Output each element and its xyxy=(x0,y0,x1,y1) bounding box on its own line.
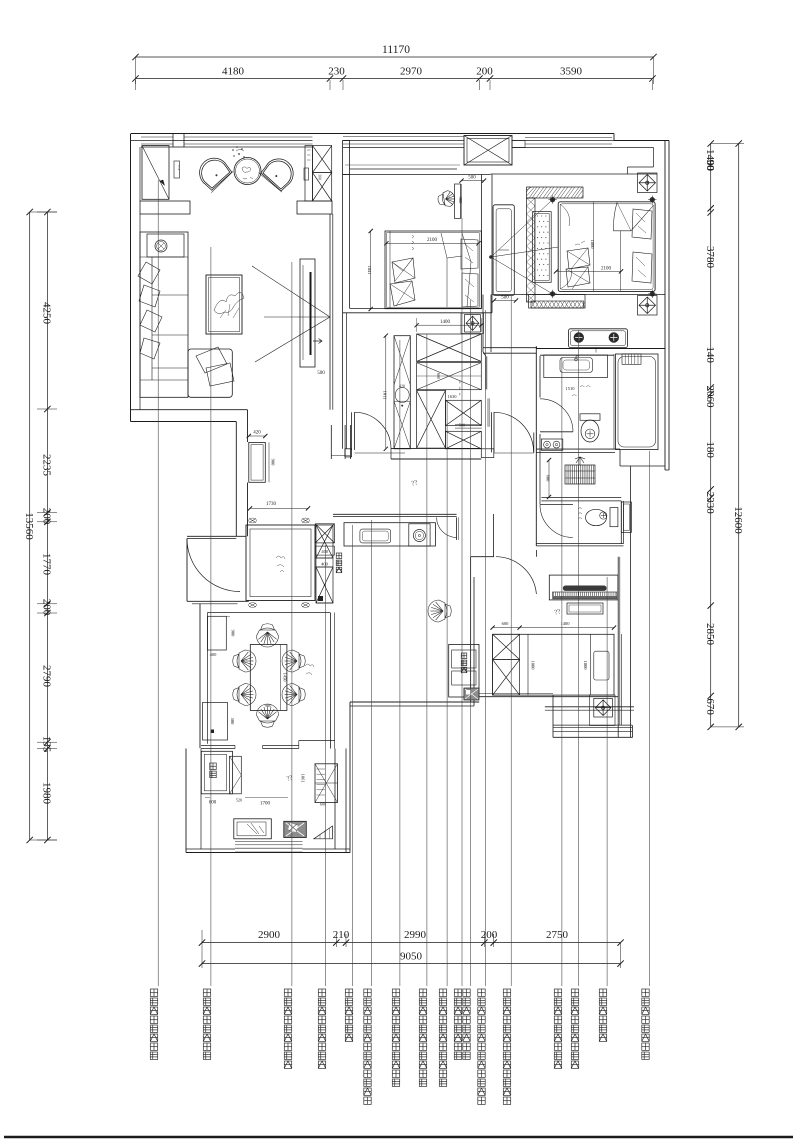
svg-text:600: 600 xyxy=(546,475,551,483)
svg-text:1770: 1770 xyxy=(41,553,53,576)
wardrobe hatch top strip xyxy=(527,187,584,198)
corridor west door corner block xyxy=(345,448,352,450)
svg-text:210: 210 xyxy=(333,929,350,941)
door swing arc (corridor west door) xyxy=(355,412,392,449)
svg-text:2900: 2900 xyxy=(258,929,281,941)
master quilt fold xyxy=(613,203,653,231)
master bath south wall xyxy=(536,448,620,450)
dining west cabinet upper xyxy=(208,616,227,650)
wardrobe hatch west strip xyxy=(527,198,536,302)
dining chair south xyxy=(257,704,279,727)
balcony door arc at kitchen xyxy=(437,517,457,537)
top segment dimension line xyxy=(136,78,653,80)
kitchen east wall xyxy=(334,749,336,850)
svg-text:400: 400 xyxy=(321,549,329,554)
master bedroom interior north wall line xyxy=(491,173,658,175)
entry door swing arc xyxy=(187,539,240,592)
dining scribble xyxy=(305,664,314,675)
svg-text:3590: 3590 xyxy=(560,66,583,78)
kitchen north wall xyxy=(333,513,457,515)
AC box bottom xyxy=(638,296,658,316)
master bed xyxy=(558,202,655,292)
svg-text:300: 300 xyxy=(318,174,322,180)
tatami X cabinet cells xyxy=(493,634,520,659)
svg-text:670: 670 xyxy=(704,698,716,715)
master pinwheel cushions xyxy=(567,248,590,269)
svg-text:230: 230 xyxy=(328,66,345,78)
bottom segment dimension line xyxy=(202,942,621,944)
laundry room south wall xyxy=(541,497,621,499)
piano room east inner line xyxy=(620,634,622,725)
wardrobe box B xyxy=(417,363,482,390)
left segment dimension line xyxy=(46,212,48,840)
svg-text:1400: 1400 xyxy=(440,320,451,325)
svg-text:3780: 3780 xyxy=(704,246,716,269)
svg-text:400: 400 xyxy=(321,562,329,567)
outer wall: west side of living room xyxy=(130,134,132,422)
svg-text:1861: 1861 xyxy=(300,774,305,783)
svg-text:2330: 2330 xyxy=(704,492,716,515)
svg-text:600: 600 xyxy=(320,802,326,807)
entry south wall band xyxy=(187,600,249,602)
kitchen south outer wall xyxy=(186,852,350,854)
picture frame with plant xyxy=(206,275,242,334)
window band B (living room north window) xyxy=(184,136,313,138)
svg-text:2100: 2100 xyxy=(427,238,438,243)
window band A (left bay window) xyxy=(141,136,173,138)
corridor dim line xyxy=(385,336,387,449)
svg-text:1450: 1450 xyxy=(282,673,287,683)
svg-text:900: 900 xyxy=(458,197,463,205)
west wall band of hall (vertical) xyxy=(235,422,237,537)
svg-text:1811: 1811 xyxy=(383,391,388,400)
wc south wall xyxy=(536,543,623,545)
sofa chaise xyxy=(188,349,232,397)
corridor dim 1400 xyxy=(417,324,482,326)
wall pier between windows xyxy=(173,134,184,148)
hatched cabinet right xyxy=(315,764,338,803)
dining east boundary xyxy=(330,613,332,749)
svg-text:2060: 2060 xyxy=(704,386,716,409)
door swing arc (tatami room door) xyxy=(496,557,537,594)
entry door lintel wall xyxy=(187,535,246,537)
bed2 dim 2100 xyxy=(386,242,478,244)
TV set xyxy=(310,272,312,355)
five-drawer chest xyxy=(493,205,514,296)
tatami door wall + leaf xyxy=(471,556,494,558)
label leader lines xyxy=(158,180,649,986)
tatami mat lines xyxy=(527,634,529,695)
window band C (bedroom2 north window) xyxy=(343,136,464,138)
window band D (master bedroom north window) xyxy=(525,137,612,139)
wardrobe hatch bottom strip xyxy=(529,295,585,309)
AC box top xyxy=(638,173,658,193)
svg-text:135: 135 xyxy=(41,736,53,753)
dotted mattress pad xyxy=(533,212,552,283)
wardrobe box D xyxy=(446,400,482,425)
master south wall line xyxy=(492,294,665,296)
left overall dimension 13560 xyxy=(29,212,31,840)
hinge marks xyxy=(459,381,460,395)
svg-text:4250: 4250 xyxy=(41,302,53,325)
frame around tatami AC box xyxy=(590,695,616,726)
svg-text:1800: 1800 xyxy=(590,240,595,250)
svg-text:2990: 2990 xyxy=(404,929,427,941)
sofa pillows xyxy=(138,262,160,284)
svg-text:12600: 12600 xyxy=(732,506,744,534)
dining table xyxy=(250,645,287,711)
neighbour boundary south of corridor xyxy=(350,701,479,703)
right segment dimension line xyxy=(710,144,712,727)
TV arrow xyxy=(313,339,322,344)
counter X cabinet xyxy=(315,524,334,543)
master bath north wall xyxy=(536,348,665,350)
entry west wall xyxy=(186,539,188,602)
TV viewing lines xyxy=(252,266,330,317)
chest sight lines xyxy=(491,200,553,257)
svg-text:200: 200 xyxy=(41,599,53,616)
tatami room south wall xyxy=(471,696,618,698)
hall east wall upper (bed2 side) xyxy=(482,295,484,353)
bed2 pinwheel cushions xyxy=(392,258,415,283)
bath door swing xyxy=(540,399,573,432)
fan chair west xyxy=(193,152,234,193)
counter sink xyxy=(360,529,391,543)
wall stub below bay cabinet xyxy=(140,201,190,214)
svg-text:200: 200 xyxy=(481,929,498,941)
bottom overall dimension 9050 xyxy=(202,963,621,965)
corridor side cabinet xyxy=(449,644,479,697)
bath SE step xyxy=(619,449,621,466)
AC/shaft box at corridor xyxy=(465,315,481,333)
outer wall: east side xyxy=(664,141,666,471)
foyer corner marks xyxy=(249,519,256,523)
svg-text:2850: 2850 xyxy=(704,623,716,646)
svg-text:90: 90 xyxy=(704,160,716,172)
dining chair east1 xyxy=(282,650,305,672)
foyer dim 1730 xyxy=(250,507,308,509)
washing machine xyxy=(541,439,562,450)
svg-text:11170: 11170 xyxy=(382,44,410,56)
dining chair east2 xyxy=(282,684,305,706)
svg-text:500: 500 xyxy=(468,176,476,181)
bed2 sleeping pillows xyxy=(461,239,478,269)
kitchen prep counter xyxy=(234,819,271,839)
tatami room west wall xyxy=(470,557,472,702)
wall segment right of flue box xyxy=(512,147,525,149)
piano room east wall xyxy=(617,557,619,738)
foyer square carpet xyxy=(246,525,315,601)
wc east wall + shaft xyxy=(620,501,622,544)
svg-text:1510: 1510 xyxy=(566,386,576,391)
bed2 quilt fold xyxy=(441,233,471,307)
laundry drying rack xyxy=(565,465,595,484)
right overall dimension 12600 xyxy=(738,144,740,727)
svg-text:1700: 1700 xyxy=(260,802,271,807)
svg-text:2235: 2235 xyxy=(41,454,53,477)
dining chair west1 xyxy=(233,650,256,672)
svg-text:500: 500 xyxy=(230,718,235,726)
decor dots above table xyxy=(232,146,245,158)
svg-text:500: 500 xyxy=(501,296,509,301)
bedroom2 west wall + corridor west wall xyxy=(342,175,344,449)
dining chair north xyxy=(257,624,279,647)
master dim 2100 xyxy=(556,270,621,272)
dim 500 at desk xyxy=(462,180,485,182)
living room east wall (TV wall) xyxy=(329,214,331,410)
stove (dark) xyxy=(284,821,307,837)
dim 420 xyxy=(249,435,265,437)
fan chair east xyxy=(258,152,299,193)
svg-text:1800: 1800 xyxy=(531,661,536,671)
outer wall: top, west span xyxy=(131,133,614,135)
kitchen south window xyxy=(235,840,303,842)
svg-text:500: 500 xyxy=(317,371,325,376)
bedroom2 desk xyxy=(455,184,461,219)
svg-text:600: 600 xyxy=(436,373,441,379)
dining west cabinet lower xyxy=(203,703,228,741)
piano keyboard xyxy=(553,592,617,599)
svg-text:520: 520 xyxy=(236,798,242,803)
toilet (master bath) xyxy=(580,414,600,421)
svg-text:200: 200 xyxy=(476,66,493,78)
shoe cabinet strip xyxy=(394,336,410,449)
tatami platform xyxy=(493,634,614,695)
wall stub east side of bay xyxy=(297,201,332,214)
SE corner window band xyxy=(553,724,632,726)
svg-text:13560: 13560 xyxy=(23,512,35,540)
AC box tatami xyxy=(594,698,613,717)
disinfection cabinet (dark) xyxy=(464,688,479,700)
living/bedroom2 divider wall top xyxy=(343,141,350,175)
bed2 inner border xyxy=(387,233,480,308)
svg-text:200: 200 xyxy=(41,508,53,525)
sofa body xyxy=(140,232,188,397)
svg-text:1730: 1730 xyxy=(266,502,277,507)
piano xyxy=(549,575,618,600)
bay window handle east xyxy=(304,168,309,180)
master top-right notch xyxy=(612,147,654,149)
laundry dim 600 xyxy=(548,460,550,497)
corridor west door leaf xyxy=(351,412,353,450)
svg-text:4180: 4180 xyxy=(222,66,245,78)
flue column with X cells at living NE xyxy=(305,146,313,201)
tatami top dim line xyxy=(493,627,614,629)
dining south wall xyxy=(201,745,235,747)
bedroom2 north interior wall xyxy=(350,168,458,170)
door swing arc (corridor south door) xyxy=(494,412,534,451)
bedroom2 window sill line xyxy=(345,164,460,166)
living room south wall xyxy=(131,409,248,411)
wardrobe box E xyxy=(446,431,482,449)
svg-text:900: 900 xyxy=(271,459,276,467)
bed2 c-marks xyxy=(412,235,414,250)
wardrobe box C xyxy=(417,390,446,448)
master bed pillows xyxy=(632,209,652,239)
corridor chair xyxy=(428,600,451,622)
corridor south wall (wardrobe area bottom) xyxy=(391,447,481,449)
svg-text:1630: 1630 xyxy=(448,394,458,399)
kitchen west wall xyxy=(185,749,187,853)
wine cabinet 420 xyxy=(249,442,265,482)
TV cabinet xyxy=(300,259,315,367)
svg-text:1800: 1800 xyxy=(583,661,588,671)
svg-text:600: 600 xyxy=(209,801,217,806)
sofa corner table xyxy=(147,234,184,257)
piano bench xyxy=(567,603,603,614)
master dim 500 xyxy=(494,300,516,302)
door leaf to tatami corridor xyxy=(491,412,493,452)
bedroom2 south wall xyxy=(343,312,492,314)
bottom furniture labels (vertical CJK) xyxy=(150,989,157,1059)
sheet bottom border line xyxy=(4,1136,793,1139)
wc toilet xyxy=(610,508,618,527)
dining chair west2 xyxy=(233,684,256,706)
entry storm cabinet strip (X cells) xyxy=(316,525,333,558)
svg-text:420: 420 xyxy=(253,431,261,436)
wc west wall xyxy=(535,453,537,546)
hall step wall xyxy=(483,352,486,356)
wc door leaf + arc xyxy=(540,504,573,506)
bath sink counter xyxy=(544,355,608,378)
svg-text:1841: 1841 xyxy=(367,266,372,275)
foyer to kitchen wall columns xyxy=(330,425,332,459)
wall stub west of master bath xyxy=(483,347,537,349)
svg-text:900: 900 xyxy=(231,630,236,638)
fridge xyxy=(201,751,232,794)
round tea table xyxy=(234,158,261,185)
north counter xyxy=(344,523,435,546)
top overall dimension 11170 xyxy=(136,56,654,58)
bathtub xyxy=(616,354,659,450)
foyer center scribble xyxy=(276,556,285,572)
master downlight dots xyxy=(550,197,555,202)
svg-text:180: 180 xyxy=(704,441,716,458)
svg-text:2750: 2750 xyxy=(546,929,569,941)
kitchen cabinet panel xyxy=(230,756,242,794)
bedroom2 bed xyxy=(385,231,481,309)
outer wall: top, east span (stepped) xyxy=(613,134,615,141)
double basin vanity xyxy=(569,329,628,348)
counter stove xyxy=(409,524,430,546)
shower head xyxy=(622,354,641,365)
dining west wall xyxy=(199,604,201,748)
svg-text:2790: 2790 xyxy=(41,665,53,688)
drain rack triangle xyxy=(314,826,333,839)
svg-text:C-1: C-1 xyxy=(177,165,181,171)
foyer column strip bottom closure xyxy=(331,455,350,457)
bedroom2/master divider wall xyxy=(481,175,483,309)
desk chair xyxy=(437,190,457,209)
wardrobe box A xyxy=(417,334,482,362)
svg-text:600: 600 xyxy=(502,621,510,626)
master bath west wall xyxy=(535,346,537,452)
svg-text:9050: 9050 xyxy=(400,951,423,963)
east channel line xyxy=(630,466,632,737)
bath door leaf xyxy=(540,431,573,433)
flue shaft box (double border with X) xyxy=(464,136,512,166)
svg-text:2970: 2970 xyxy=(400,66,423,78)
svg-text:140: 140 xyxy=(704,346,716,363)
svg-text:2100: 2100 xyxy=(601,267,612,272)
wc dotted marks xyxy=(578,508,582,519)
vertical room label near kitchen wall xyxy=(336,553,342,573)
bay cabinet with diagonal (hall low cabinet) xyxy=(142,146,169,200)
gray door frame bar xyxy=(488,399,490,427)
svg-text:1980: 1980 xyxy=(41,782,53,805)
top wall inner line xyxy=(131,140,313,142)
dining north boundary line xyxy=(208,612,331,614)
